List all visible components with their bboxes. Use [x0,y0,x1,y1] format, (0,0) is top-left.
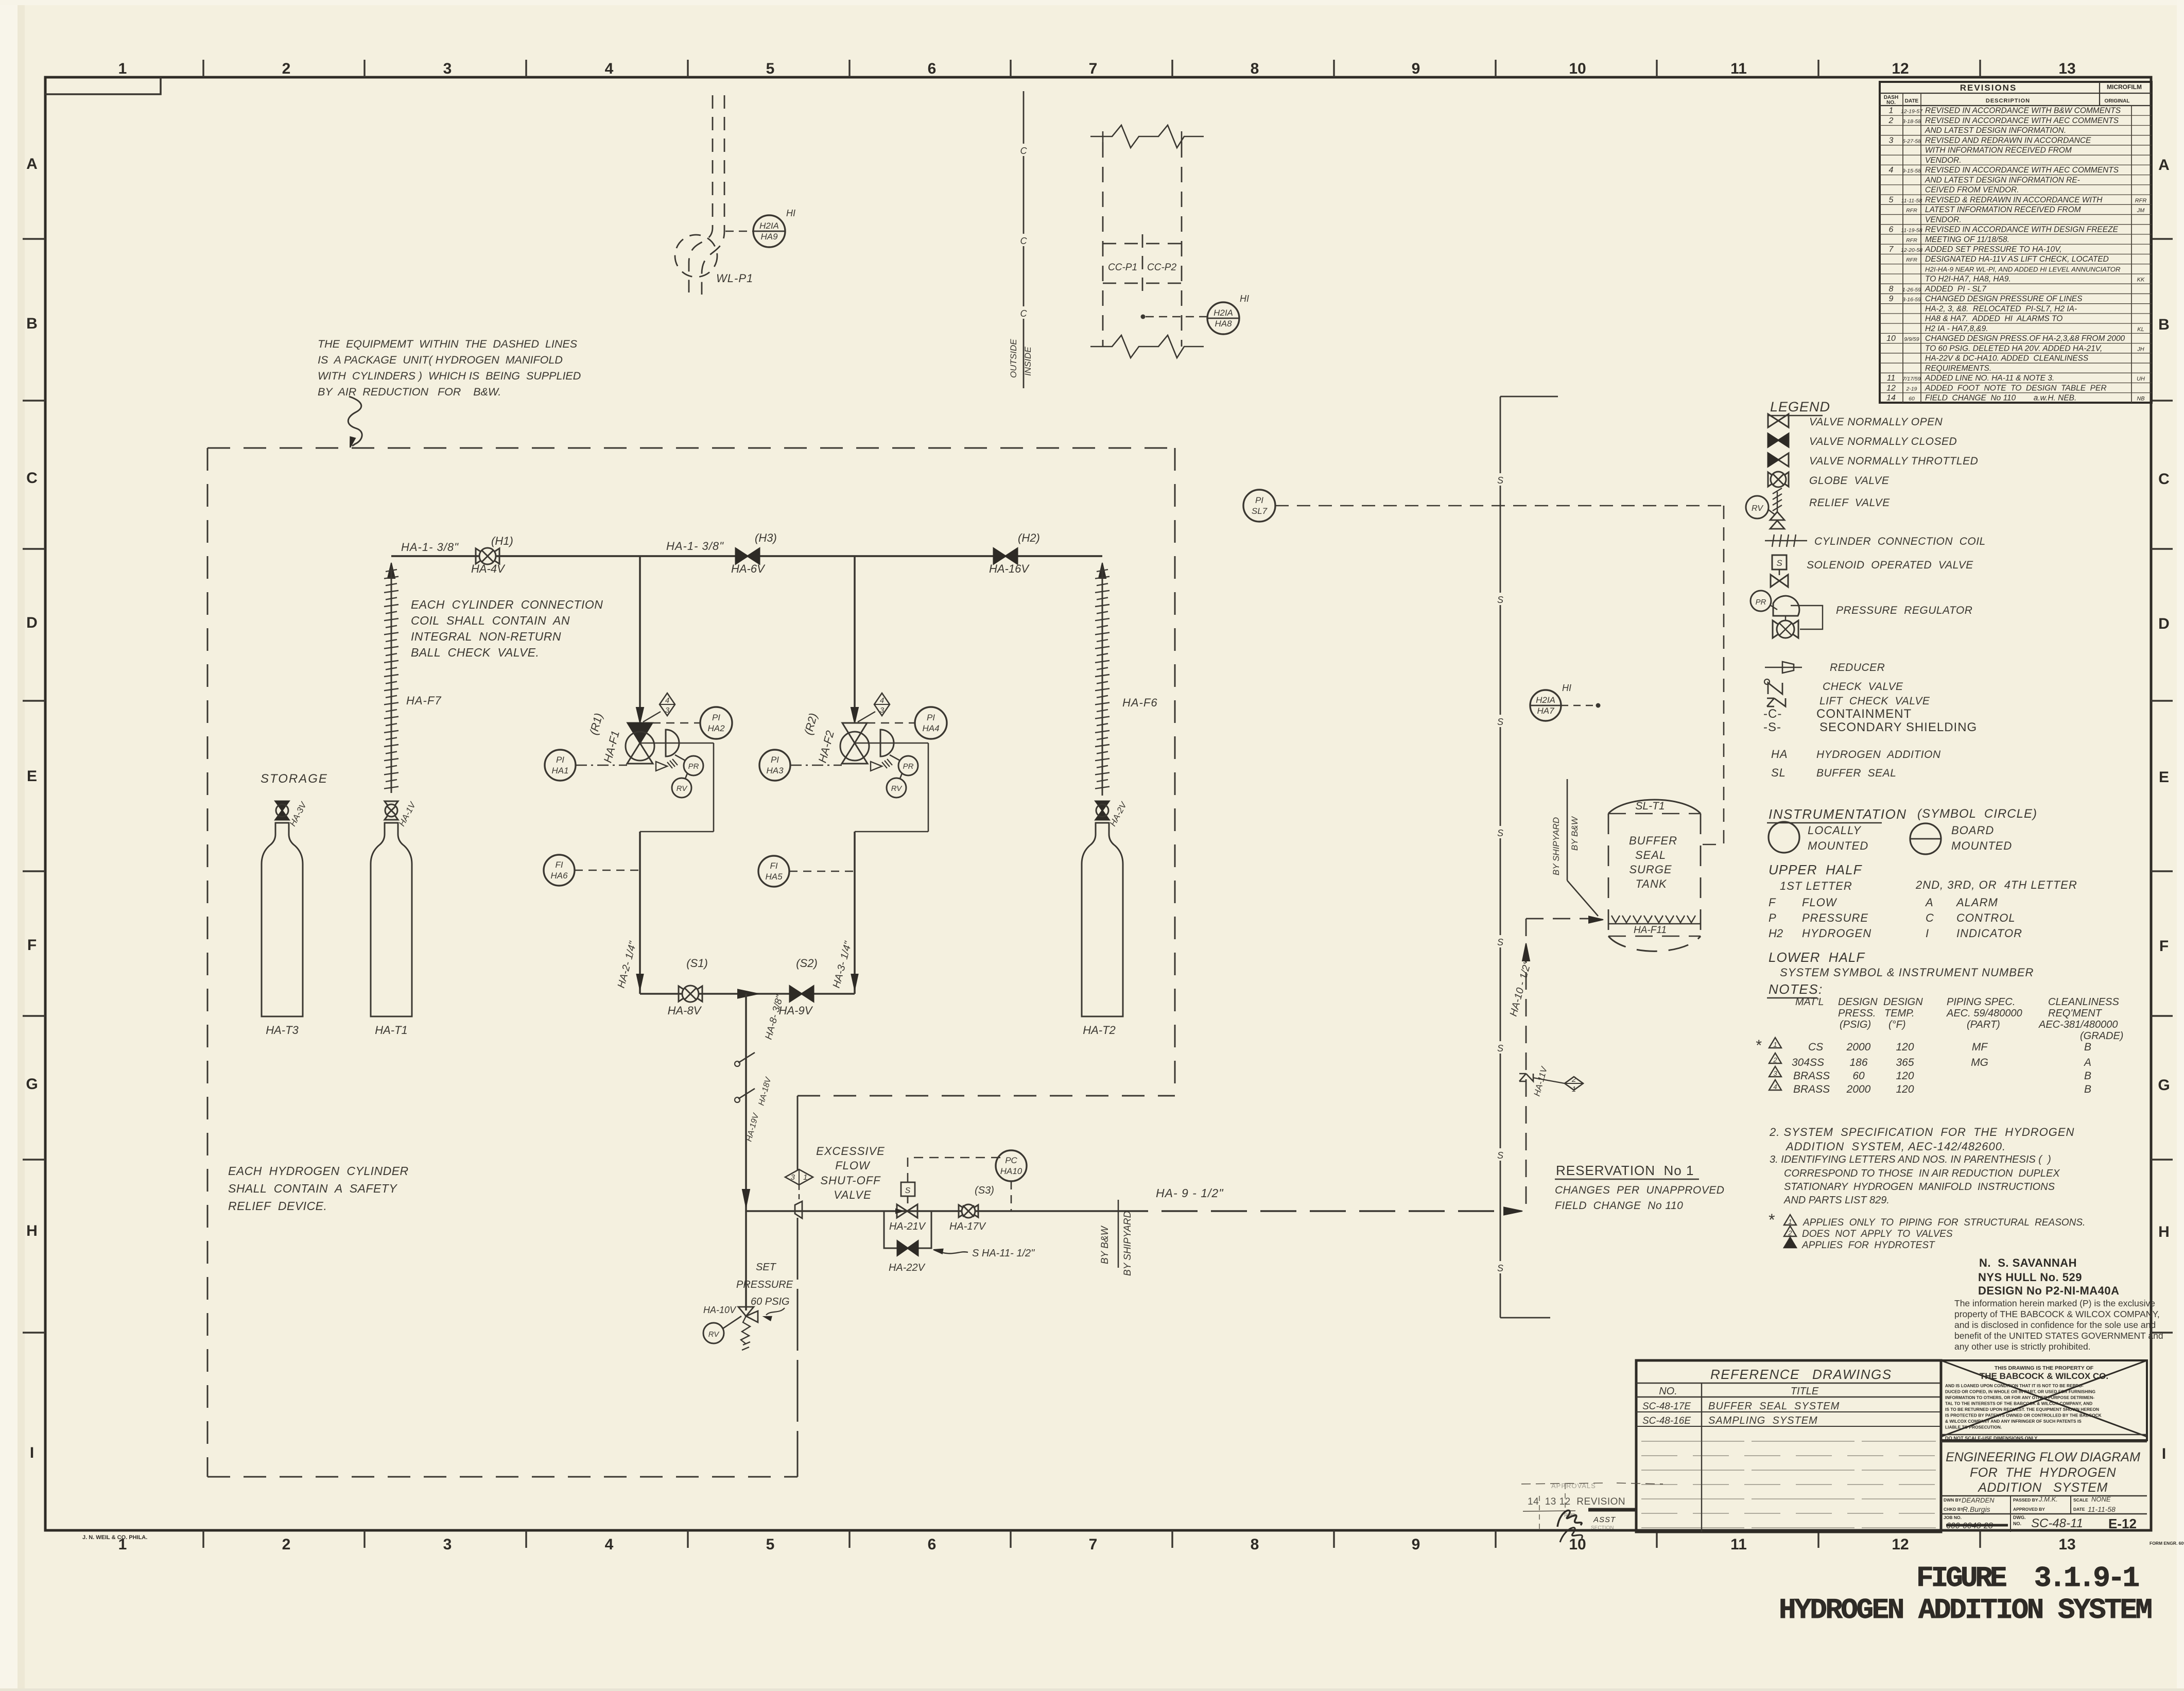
legend globe valve symbol [1768,472,1778,487]
legend valve normally throttled symbol [1768,453,1778,467]
svg-text:COIL SHALL CONTAIN AN: COIL SHALL CONTAIN AN [411,614,570,627]
svg-text:ENGINEERING FLOW DIAGRAM: ENGINEERING FLOW DIAGRAM [1946,1450,2140,1464]
svg-text:S: S [1497,595,1503,605]
svg-text:E: E [27,768,37,785]
svg-text:HA1: HA1 [551,766,568,775]
pressure regulator HA-F2 (R2) [851,708,858,723]
svg-text:RELIEF DEVICE.: RELIEF DEVICE. [228,1199,327,1213]
svg-text:12: 12 [1892,60,1909,77]
svg-text:IS TO BE RETURNED UPON REQUEST: IS TO BE RETURNED UPON REQUEST. THE EQUI… [1945,1407,2099,1412]
svg-text:ADDED SET PRESSURE TO HA-10V,: ADDED SET PRESSURE TO HA-10V, [1925,245,2062,254]
flow arrow junction to HA-8 drop [738,990,758,998]
svg-text:1: 1 [803,1173,807,1182]
svg-text:REQ'MENT: REQ'MENT [2048,1008,2103,1019]
svg-text:AND PARTS LIST 829.: AND PARTS LIST 829. [1783,1195,1890,1206]
svg-text:BUFFER SEAL: BUFFER SEAL [1816,767,1896,779]
svg-text:7: 7 [1089,1536,1098,1553]
svg-text:VALVE NORMALLY CLOSED: VALVE NORMALLY CLOSED [1809,436,1957,447]
svg-text:NONE: NONE [2091,1495,2111,1503]
svg-text:WL-P1: WL-P1 [716,272,753,285]
svg-text:S: S [1497,475,1503,486]
svg-text:HA6: HA6 [550,871,568,881]
spec diamond 4/3 at HA-F2 [874,693,890,716]
svg-text:OUTSIDE: OUTSIDE [1009,339,1018,378]
containment line C [1023,91,1025,388]
svg-text:B: B [2084,1083,2091,1095]
svg-text:11-11-58: 11-11-58 [1901,198,1922,204]
svg-text:J.M.K.: J.M.K. [2038,1495,2058,1503]
svg-text:FI: FI [555,860,563,870]
svg-text:HYDROGEN: HYDROGEN [1802,927,1871,940]
svg-text:VALVE NORMALLY OPEN: VALVE NORMALLY OPEN [1809,416,1943,428]
svg-text:3: 3 [443,1536,452,1553]
svg-text:FLOW: FLOW [1802,896,1838,909]
svg-text:SYSTEM SYMBOL & INSTRUMENT NUM: SYSTEM SYMBOL & INSTRUMENT NUMBER [1780,966,2034,979]
svg-text:SL7: SL7 [1252,506,1268,516]
valve HA-17V (S3) globe valve [959,1205,968,1217]
svg-text:HA5: HA5 [765,872,783,882]
hydrogen cylinder HA-T3 [262,823,303,1016]
svg-text:3: 3 [665,706,670,715]
svg-text:PI: PI [771,755,779,765]
instrument HA3 [759,750,790,781]
svg-text:REVISED IN ACCORDANCE WITH AEC: REVISED IN ACCORDANCE WITH AEC COMMENTS [1925,166,2119,175]
svg-text:AEC. 59/480000: AEC. 59/480000 [1946,1008,2022,1019]
svg-text:*: * [1768,1211,1775,1229]
svg-text:APPLIES FOR HYDROTEST: APPLIES FOR HYDROTEST [1801,1240,1935,1251]
svg-text:SOLENOID OPERATED VALVE: SOLENOID OPERATED VALVE [1807,559,1973,571]
svg-text:11: 11 [1730,60,1747,77]
svg-text:RFR: RFR [1906,237,1917,244]
svg-text:I: I [1926,927,1929,940]
svg-text:IS A PACKAGE UNIT( HYDROGEN: IS A PACKAGE UNIT( HYDROGEN MANIFOLD [318,354,563,366]
reference drawings table frame [1636,1360,1941,1532]
svg-text:CONTROL: CONTROL [1956,911,2016,924]
svg-text:RV: RV [891,784,903,793]
svg-text:H2: H2 [1769,927,1783,940]
reducer on HA-9 [795,1201,802,1218]
svg-text:WITH CYLINDERS ) WHICH IS B: WITH CYLINDERS ) WHICH IS BEING SUPPLIED [318,370,581,382]
instrument HA2 [652,722,700,724]
svg-text:VALVE: VALVE [834,1188,872,1201]
svg-text:AND LATEST DESIGN INFORMATION.: AND LATEST DESIGN INFORMATION. [1925,126,2066,135]
BY SHIPYARD / BY B&W divider at tank [1567,779,1568,881]
legend valve normally open symbol [1768,414,1778,427]
svg-text:JH: JH [2137,346,2144,352]
svg-text:DESIGN: DESIGN [1883,996,1923,1008]
svg-text:CHANGED DESIGN PRESS.OF HA-2,3: CHANGED DESIGN PRESS.OF HA-2,3,&8 FROM 2… [1925,334,2125,343]
svg-text:BRASS: BRASS [1793,1070,1830,1082]
svg-text:HA8 & HA7. ADDED HI ALARMS: HA8 & HA7. ADDED HI ALARMS TO [1925,315,2062,323]
svg-text:DATE: DATE [2073,1507,2085,1512]
tank inlet coil HA-F11 [1611,916,1695,923]
svg-text:UPPER HALF: UPPER HALF [1769,862,1863,877]
valve HA-2V on cylinder HA-T2 [1096,801,1109,810]
svg-text:PR: PR [688,762,699,771]
svg-text:12-19-57: 12-19-57 [1901,109,1923,115]
svg-text:HA9: HA9 [760,232,778,241]
RV circle for HA-10V [703,1323,724,1343]
svg-text:C: C [1020,146,1028,156]
svg-text:HI: HI [786,208,795,218]
svg-text:VENDOR.: VENDOR. [1925,215,1962,224]
svg-text:PRESSURE REGULATOR: PRESSURE REGULATOR [1836,605,1972,616]
svg-text:DO NOT SCALE-USE DIMENSIONS ON: DO NOT SCALE-USE DIMENSIONS ONLY [1945,1436,2037,1441]
flow arrow HA-9 into shield area [1504,1207,1522,1215]
svg-text:HA-T3: HA-T3 [266,1024,299,1037]
svg-text:8: 8 [1889,285,1894,294]
svg-text:RMD: RMD [1564,1513,1576,1519]
package unit dashed boundary bottom edge [207,1476,798,1478]
svg-text:REVISED IN ACCORDANCE WITH DES: REVISED IN ACCORDANCE WITH DESIGN FREEZE [1925,226,2119,234]
svg-text:SHALL CONTAIN A SAFETY: SHALL CONTAIN A SAFETY [228,1182,397,1195]
svg-text:SC-48-11: SC-48-11 [2031,1516,2083,1530]
column ticks bottom edge [203,1530,1980,1548]
svg-text:HA-4V: HA-4V [471,562,506,575]
BY B&W / BY SHIPYARD divider at HA-9 [1118,1200,1119,1268]
svg-text:PI: PI [927,713,935,722]
B&W property stamp box [1941,1360,2147,1440]
svg-text:2-19: 2-19 [1905,386,1917,392]
svg-text:REVISIONS: REVISIONS [1960,83,2017,93]
valve HA-4V (H1) globe valve [476,548,488,564]
svg-text:(S2): (S2) [796,957,818,970]
solenoid box S above HA-21V [901,1182,915,1196]
svg-text:120: 120 [1896,1070,1914,1082]
svg-text:2: 2 [1888,116,1894,125]
svg-text:THE BABCOCK & WILCOX CO.: THE BABCOCK & WILCOX CO. [1980,1371,2108,1381]
svg-text:REDUCER: REDUCER [1830,662,1885,674]
svg-text:6-27-58: 6-27-58 [1902,138,1921,144]
svg-text:HA-1- 3/8": HA-1- 3/8" [666,540,724,553]
svg-text:EACH HYDROGEN CYLINDER: EACH HYDROGEN CYLINDER [228,1164,409,1178]
svg-text:E-12: E-12 [2108,1516,2137,1531]
svg-text:ADDED FOOT NOTE TO DESIGN: ADDED FOOT NOTE TO DESIGN TABLE PER [1925,384,2107,392]
svg-text:RFR: RFR [1906,257,1917,263]
row ticks right edge [2151,239,2173,1333]
svg-text:3: 3 [880,706,885,715]
svg-text:11: 11 [1887,374,1896,383]
svg-text:KL: KL [2137,326,2144,333]
svg-text:S: S [1497,717,1503,727]
spec diamond 4/3 at HA-F1 [660,693,675,716]
svg-text:RV: RV [1752,504,1763,513]
svg-text:HA-F11: HA-F11 [1634,925,1667,936]
svg-text:TO H2I-HA7, HA8, HA9.: TO H2I-HA7, HA8, HA9. [1925,275,2011,284]
svg-text:EXCESSIVE: EXCESSIVE [816,1145,885,1158]
valve HA-3V on cylinder HA-T3 [275,801,289,810]
svg-text:HA3: HA3 [766,766,784,775]
svg-text:BRASS: BRASS [1793,1083,1830,1095]
svg-text:NO.: NO. [1659,1386,1677,1397]
svg-text:LATEST INFORMATION RECEIVED FR: LATEST INFORMATION RECEIVED FROM [1925,205,2081,214]
svg-text:A: A [26,156,38,172]
svg-text:3: 3 [791,1173,795,1182]
hydrogen cylinder HA-T2 [1082,823,1123,1016]
svg-text:VALVE NORMALLY THROTTLED: VALVE NORMALLY THROTTLED [1809,455,1978,467]
leader S HA-11-1/2 inch [935,1250,968,1253]
svg-text:9: 9 [1412,60,1420,77]
svg-text:RFR: RFR [1906,208,1917,214]
svg-text:CS: CS [1808,1041,1823,1053]
svg-text:APPROVED BY: APPROVED BY [2013,1507,2045,1512]
package unit dashed boundary right edge [1174,448,1176,1096]
svg-text:HA-F6: HA-F6 [1122,696,1158,709]
svg-text:LIABLE TO PROSECUTION.: LIABLE TO PROSECUTION. [1945,1425,2002,1430]
svg-text:TITLE: TITLE [1791,1386,1819,1397]
svg-text:H2IA: H2IA [759,221,779,231]
svg-text:HA- 9 - 1/2": HA- 9 - 1/2" [1156,1186,1224,1200]
svg-text:HA-8V: HA-8V [668,1004,702,1017]
svg-text:TEMP.: TEMP. [1884,1008,1915,1019]
revisions table column lines [1902,93,1903,403]
svg-text:SECONDARY SHIELDING: SECONDARY SHIELDING [1819,720,1977,734]
svg-text:BUFFER: BUFFER [1629,834,1677,847]
svg-text:3. IDENTIFYING LETTERS AND NOS: 3. IDENTIFYING LETTERS AND NOS. IN PAREN… [1770,1154,2051,1165]
control dashes solenoid to PC HA10 [908,1158,1001,1182]
svg-text:DESIGNATED HA-11V AS LIFT CHEC: DESIGNATED HA-11V AS LIFT CHECK, LOCATED [1925,255,2109,264]
svg-text:HA-2, 3, &8. RELOCATED PI-SL: HA-2, 3, &8. RELOCATED PI-SL7, H2 IA- [1925,304,2077,313]
svg-text:HA4: HA4 [922,723,939,733]
svg-text:A: A [2158,157,2170,174]
svg-text:14 13 12 REVISION: 14 13 12 REVISION [1528,1496,1625,1507]
instrument HA1 [545,750,576,781]
svg-text:SURGE: SURGE [1629,863,1672,876]
svg-text:INTEGRAL NON-RETURN: INTEGRAL NON-RETURN [411,630,561,643]
svg-text:11-19-58: 11-19-58 [1901,228,1922,234]
containment penetration box CC-P1 CC-P2 [1090,125,1204,148]
svg-text:E: E [2159,769,2169,786]
svg-text:G: G [2158,1077,2170,1094]
svg-text:CC-P2: CC-P2 [1147,262,1176,273]
svg-text:(H3): (H3) [755,531,777,544]
svg-text:2000: 2000 [1846,1083,1871,1095]
svg-text:RELIEF VALVE: RELIEF VALVE [1809,497,1890,509]
pipe riser to regulator R1 [639,556,641,708]
svg-text:WITH INFORMATION RECEIVED FROM: WITH INFORMATION RECEIVED FROM [1925,146,2072,155]
svg-text:benefit of the UNITED STATES G: benefit of the UNITED STATES GOVERNMENT … [1954,1331,2163,1341]
svg-text:LIFT CHECK VALVE: LIFT CHECK VALVE [1819,695,1930,707]
svg-text:120: 120 [1896,1041,1914,1053]
svg-text:CLEANLINESS: CLEANLINESS [2048,996,2119,1008]
svg-text:5: 5 [766,1536,775,1553]
svg-text:7/17/59: 7/17/59 [1902,376,1920,382]
svg-text:3-16-59: 3-16-59 [1902,297,1921,303]
svg-text:DOES NOT APPLY TO VALVES: DOES NOT APPLY TO VALVES [1802,1229,1953,1239]
lift check at HA-F2 [871,762,882,771]
spec diamond 3/1 [785,1169,813,1185]
svg-text:HA-T1: HA-T1 [375,1024,408,1037]
svg-text:DESIGN: DESIGN [1838,996,1878,1008]
svg-text:S HA-11- 1/2": S HA-11- 1/2" [972,1248,1035,1259]
pipe HA-8 drop to HA-9 header [745,994,747,1211]
svg-text:HA7: HA7 [1537,706,1554,716]
svg-text:(S3): (S3) [975,1185,994,1196]
svg-text:HA-F7: HA-F7 [406,694,442,707]
svg-text:SECTION: SECTION [1591,1525,1614,1531]
svg-text:304SS: 304SS [1792,1057,1824,1068]
svg-text:PI: PI [712,713,720,722]
svg-text:P: P [1769,911,1776,924]
pipe HA-2 drop from R1 [639,832,641,994]
svg-text:FIELD CHANGE No 110 a: FIELD CHANGE No 110 a.w.H. NEB. [1925,394,2076,403]
svg-text:BALL CHECK VALVE.: BALL CHECK VALVE. [411,646,539,659]
svg-text:CHECK VALVE: CHECK VALVE [1823,681,1903,693]
svg-text:C: C [1020,236,1028,246]
svg-text:S: S [1497,1150,1503,1161]
svg-text:HYDROGEN ADDITION SYSTEM: HYDROGEN ADDITION SYSTEM [1779,1594,2151,1627]
legend valve normally closed symbol [1768,434,1778,447]
svg-text:2: 2 [282,60,291,77]
svg-text:DWG.: DWG. [2013,1515,2026,1520]
svg-text:BY B&W: BY B&W [1100,1225,1111,1264]
svg-text:MEETING OF 11/18/58.: MEETING OF 11/18/58. [1925,235,2009,244]
svg-text:NB: NB [2137,396,2144,402]
legend lift check valve symbol [1767,698,1786,706]
svg-text:CONTAINMENT: CONTAINMENT [1816,707,1912,721]
RV circle of HA-F2 [887,778,906,798]
pipe HA-9 header [746,1210,1112,1212]
svg-text:1: 1 [118,60,127,77]
svg-text:8: 8 [1251,60,1259,77]
note triangle 3 [1784,1237,1796,1248]
svg-text:12: 12 [1886,384,1896,392]
svg-text:JOB NO.: JOB NO. [1944,1515,1962,1520]
svg-text:9: 9 [1889,295,1894,303]
revisions table frame [1880,82,2152,403]
svg-text:I: I [2162,1445,2166,1462]
svg-text:PI: PI [556,755,564,765]
svg-text:10: 10 [1886,334,1896,343]
svg-text:A: A [1925,896,1933,909]
package unit boundary inner vertical line [797,1096,799,1170]
svg-text:S: S [1497,828,1503,838]
svg-text:ADDED PI - SL7: ADDED PI - SL7 [1925,285,1987,294]
svg-text:AND LATEST DESIGN INFORMATION: AND LATEST DESIGN INFORMATION RE- [1925,176,2080,184]
dashed pipe WL-P1 loop [689,95,713,292]
svg-text:any other use is strictly proh: any other use is strictly prohibited. [1954,1341,2091,1352]
svg-text:TO 60 PSIG. DELETED HA 20V. AD: TO 60 PSIG. DELETED HA 20V. ADDED HA-21V… [1925,344,2102,353]
svg-text:C: C [1926,911,1934,924]
svg-text:4: 4 [605,1536,614,1553]
svg-text:9-15-58: 9-15-58 [1902,168,1921,174]
valve HA-1V on cylinder HA-T1 [385,801,398,810]
svg-text:STATIONARY HYDROGEN MANIFOLD: STATIONARY HYDROGEN MANIFOLD INSTRUCTION… [1784,1181,2055,1193]
svg-text:8: 8 [1251,1536,1259,1553]
PR pilot circle of HA-F1 [684,756,703,775]
svg-text:S: S [1497,937,1503,947]
svg-text:INSIDE: INSIDE [1023,347,1033,376]
bypass loop HA-11 [884,1211,931,1248]
svg-text:HA-T2: HA-T2 [1083,1024,1116,1037]
svg-text:1-26-59: 1-26-59 [1902,287,1921,293]
svg-text:6: 6 [928,1536,937,1553]
svg-text:PRESS.: PRESS. [1838,1008,1876,1019]
svg-text:DRAWINGS: DRAWINGS [1812,1367,1892,1382]
svg-text:CEIVED FROM VENDOR.: CEIVED FROM VENDOR. [1925,186,2019,195]
svg-text:NYS HULL No. 529: NYS HULL No. 529 [1978,1271,2082,1284]
instrument PI SL7 [1243,490,1275,522]
svg-text:1ST LETTER: 1ST LETTER [1780,879,1852,892]
valve HA-16V (H2) normally closed [994,548,1006,564]
buffer seal surge tank SL-T1 [1608,800,1701,814]
title block signature strip [1941,1495,2147,1497]
svg-text:DESCRIPTION: DESCRIPTION [1986,98,2030,104]
svg-text:ADDITION SYSTEM, AEC-142/4826: ADDITION SYSTEM, AEC-142/482600. [1785,1140,2006,1153]
svg-text:& WILCOX COMPANY AND ANY INFRI: & WILCOX COMPANY AND ANY INFRINGER OF SU… [1945,1419,2082,1424]
svg-text:DEARDEN: DEARDEN [1962,1496,1995,1504]
svg-text:HA: HA [1771,748,1788,761]
svg-text:CHANGES PER UNAPPROVED: CHANGES PER UNAPPROVED [1555,1184,1724,1196]
svg-text:C: C [1020,308,1028,319]
svg-text:(GRADE): (GRADE) [2080,1030,2123,1042]
svg-text:2ND, 3RD, OR 4TH LETTER: 2ND, 3RD, OR 4TH LETTER [1915,878,2077,891]
svg-text:FIELD CHANGE No 110: FIELD CHANGE No 110 [1555,1200,1683,1212]
svg-text:CHKD BY: CHKD BY [1944,1507,1964,1512]
svg-text:9/9/59: 9/9/59 [1904,336,1919,342]
svg-text:VENDOR.: VENDOR. [1925,156,1962,165]
pipe manifold S1-S2 [640,993,855,995]
instrument H2IA HA7 high alarm [1530,690,1561,721]
valve HA-9V (S2) normally closed [790,986,802,1002]
svg-text:2: 2 [1571,1075,1576,1084]
svg-text:I: I [30,1444,34,1461]
svg-text:GLOBE VALVE: GLOBE VALVE [1809,475,1890,487]
package unit dashed boundary left edge [207,448,209,1477]
svg-text:60 PSIG: 60 PSIG [751,1296,790,1307]
svg-text:SET: SET [756,1262,777,1273]
svg-text:BY SHIPYARD: BY SHIPYARD [1122,1211,1133,1276]
reference table empty rows [1641,1441,1936,1442]
svg-text:HA2: HA2 [707,723,725,733]
valve HA-22V bypass normally closed [897,1241,908,1255]
svg-text:PIPING SPEC.: PIPING SPEC. [1947,996,2015,1008]
svg-text:12-20-58: 12-20-58 [1901,247,1922,253]
svg-text:STORAGE: STORAGE [261,772,328,786]
lift check HA-11V [1519,1074,1533,1081]
locally mounted symbol [1769,822,1799,853]
svg-text:H: H [26,1222,38,1239]
svg-text:AND IS LOANED UPON CONDITION T: AND IS LOANED UPON CONDITION THAT IT IS … [1945,1383,2084,1388]
svg-text:FOR THE HYDROGEN: FOR THE HYDROGEN [1970,1465,2116,1480]
svg-text:THIS DRAWING IS THE PROPERTY O: THIS DRAWING IS THE PROPERTY OF [1995,1365,2094,1371]
svg-text:7: 7 [1089,60,1098,77]
svg-text:LOWER HALF: LOWER HALF [1769,950,1865,965]
svg-text:HA-21V: HA-21V [889,1221,926,1232]
svg-text:1: 1 [1889,107,1894,115]
svg-text:TANK: TANK [1635,877,1667,890]
svg-text:S: S [1776,558,1782,568]
svg-text:FLOW: FLOW [835,1159,871,1172]
svg-text:EACH CYLINDER CONNECTION: EACH CYLINDER CONNECTION [411,598,603,611]
pipe HA-3 drop from R2 [854,832,856,994]
svg-text:2: 2 [1773,1056,1777,1064]
svg-text:H2I-HA-9 NEAR WL-PI, AND ADDED: H2I-HA-9 NEAR WL-PI, AND ADDED HI LEVEL … [1925,265,2121,273]
svg-text:D: D [26,614,38,631]
svg-text:J. N. WEIL & CO. PHILA.: J. N. WEIL & CO. PHILA. [82,1534,147,1541]
valve HA-8V (S1) globe valve [679,986,690,1002]
svg-text:4: 4 [880,696,884,705]
svg-text:4: 4 [665,696,669,705]
svg-text:NOTES:: NOTES: [1769,981,1823,997]
svg-text:14: 14 [1886,394,1896,403]
legend check valve symbol [1768,683,1782,694]
svg-text:13: 13 [2058,1536,2075,1553]
svg-text:5: 5 [1889,196,1894,204]
svg-text:6: 6 [928,60,937,77]
svg-text:11: 11 [1730,1536,1747,1553]
svg-text:SAMPLING SYSTEM: SAMPLING SYSTEM [1708,1415,1818,1426]
